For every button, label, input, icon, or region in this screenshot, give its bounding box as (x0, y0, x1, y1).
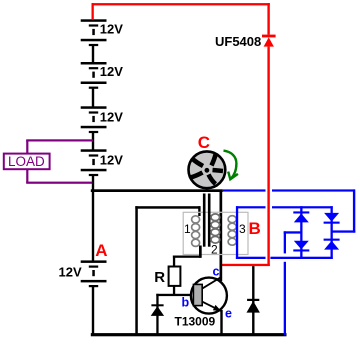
svg-text:12V: 12V (100, 22, 123, 37)
resistor R (154, 267, 180, 286)
wire diode D1 branch (156, 294, 158, 335)
battery BT1 12V (81, 19, 124, 46)
svg-text:c: c (213, 265, 220, 279)
rotor C (189, 151, 226, 188)
svg-text:C: C (198, 133, 210, 152)
wire red top rail (92, 3, 270, 34)
svg-text:2: 2 (211, 243, 218, 257)
wire main horizontal (stator line) (91, 189, 223, 192)
svg-text:1: 1 (184, 222, 191, 236)
wire blue rail2 (hops red) (236, 206, 333, 208)
svg-text:12V: 12V (100, 153, 123, 168)
transistor Q1 T13009 (191, 277, 227, 314)
wire primary pin 2 vertical (220, 192, 223, 281)
wire blue ac line (hops red) (223, 189, 355, 191)
wire purple load bottom (26, 170, 92, 184)
svg-text:12V: 12V (100, 110, 123, 125)
wire oscillator box left edge (135, 206, 138, 335)
wire purple load top (26, 139, 93, 153)
diode bridge upper-left (293, 211, 309, 222)
svg-text:A: A (95, 241, 107, 260)
wire red bottom horizontal to collector node (221, 264, 270, 266)
diode bridge upper-right (324, 213, 340, 224)
svg-text:b: b (182, 296, 190, 310)
diode bridge lower-left (293, 241, 309, 252)
svg-text:UF5408: UF5408 (215, 34, 261, 49)
svg-text:B: B (249, 219, 261, 238)
battery BT3 12V (81, 106, 124, 133)
wire base rail (156, 294, 193, 296)
wire blue left branch vertical (300, 206, 302, 259)
wire blue transformer side (236, 206, 238, 259)
transformer core (203, 194, 211, 247)
wire blue right drop (332, 189, 356, 232)
svg-text:e: e (225, 307, 232, 321)
wire oscillator box top edge (135, 206, 200, 209)
battery BT4 12V (81, 149, 124, 176)
wire winding1 bottom pin (199, 246, 202, 258)
svg-text:12V: 12V (59, 265, 82, 280)
transformer winding 3 (228, 216, 236, 246)
wire blue left tap (284, 231, 302, 335)
wire winding1 top pin (198, 206, 200, 216)
wire battery inter-cell leads (92, 46, 94, 335)
diode UF5408 (215, 34, 276, 49)
wire red right vertical (267, 47, 269, 266)
battery BT2 12V (81, 62, 124, 89)
rotation arrow (224, 151, 238, 180)
transformer winding 2 (211, 214, 220, 243)
svg-text:3: 3 (239, 222, 246, 236)
wire bottom rail (91, 333, 287, 336)
wire diode D2 branch (252, 266, 254, 334)
diode D1 (151, 304, 164, 316)
load box (4, 154, 50, 170)
wire blue right branch vertical (331, 206, 333, 259)
svg-text:T13009: T13009 (175, 315, 216, 329)
wire pin1 to resistor (173, 256, 202, 267)
svg-text:LOAD: LOAD (8, 154, 45, 169)
svg-text:R: R (154, 269, 165, 286)
svg-text:12V: 12V (100, 64, 123, 79)
transformer frame (183, 212, 248, 254)
wire blue bottom rail (hops red) (236, 257, 333, 259)
diode D2 (247, 299, 260, 313)
battery BT5 12V (cell A) (59, 260, 107, 287)
transformer winding 1 (192, 216, 200, 247)
wire resistor bottom (173, 286, 175, 296)
wire emitter down (220, 310, 222, 335)
diode bridge lower-right (324, 239, 340, 250)
